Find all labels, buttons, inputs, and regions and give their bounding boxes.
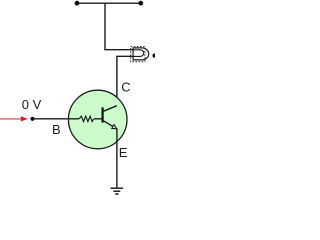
svg-text:B: B: [52, 122, 61, 137]
svg-text:C: C: [121, 80, 130, 95]
supply rail wire: [77, 2, 141, 4]
transistor Q1 collector lead: [103, 106, 117, 112]
transistor Q1 emitter lead: [103, 121, 117, 129]
svg-text:0 V: 0 V: [22, 97, 42, 112]
lamp tip contact dot: [152, 53, 156, 57]
wire input to resistor: [33, 118, 80, 120]
label E (emitter): [119, 145, 128, 160]
label B (base): [52, 122, 61, 137]
lamp LP1: [131, 47, 149, 62]
label C (collector): [121, 80, 130, 95]
wire lamp to collector: [117, 56, 133, 106]
node dot right: [138, 1, 143, 6]
node dot left: [75, 1, 80, 6]
ground: [111, 188, 123, 194]
label 0 V: [22, 97, 42, 112]
wire from rail to lamp: [105, 3, 133, 50]
wire emitter to ground: [116, 129, 118, 188]
node dot input: [30, 117, 34, 121]
wire resistor to base: [94, 118, 102, 120]
transistor Q1 base bar: [101, 107, 103, 122]
svg-text:E: E: [119, 145, 128, 160]
input signal arrow (red): [0, 116, 28, 121]
transistor Q1 body: [68, 90, 127, 149]
resistor (base series): [79, 116, 94, 121]
